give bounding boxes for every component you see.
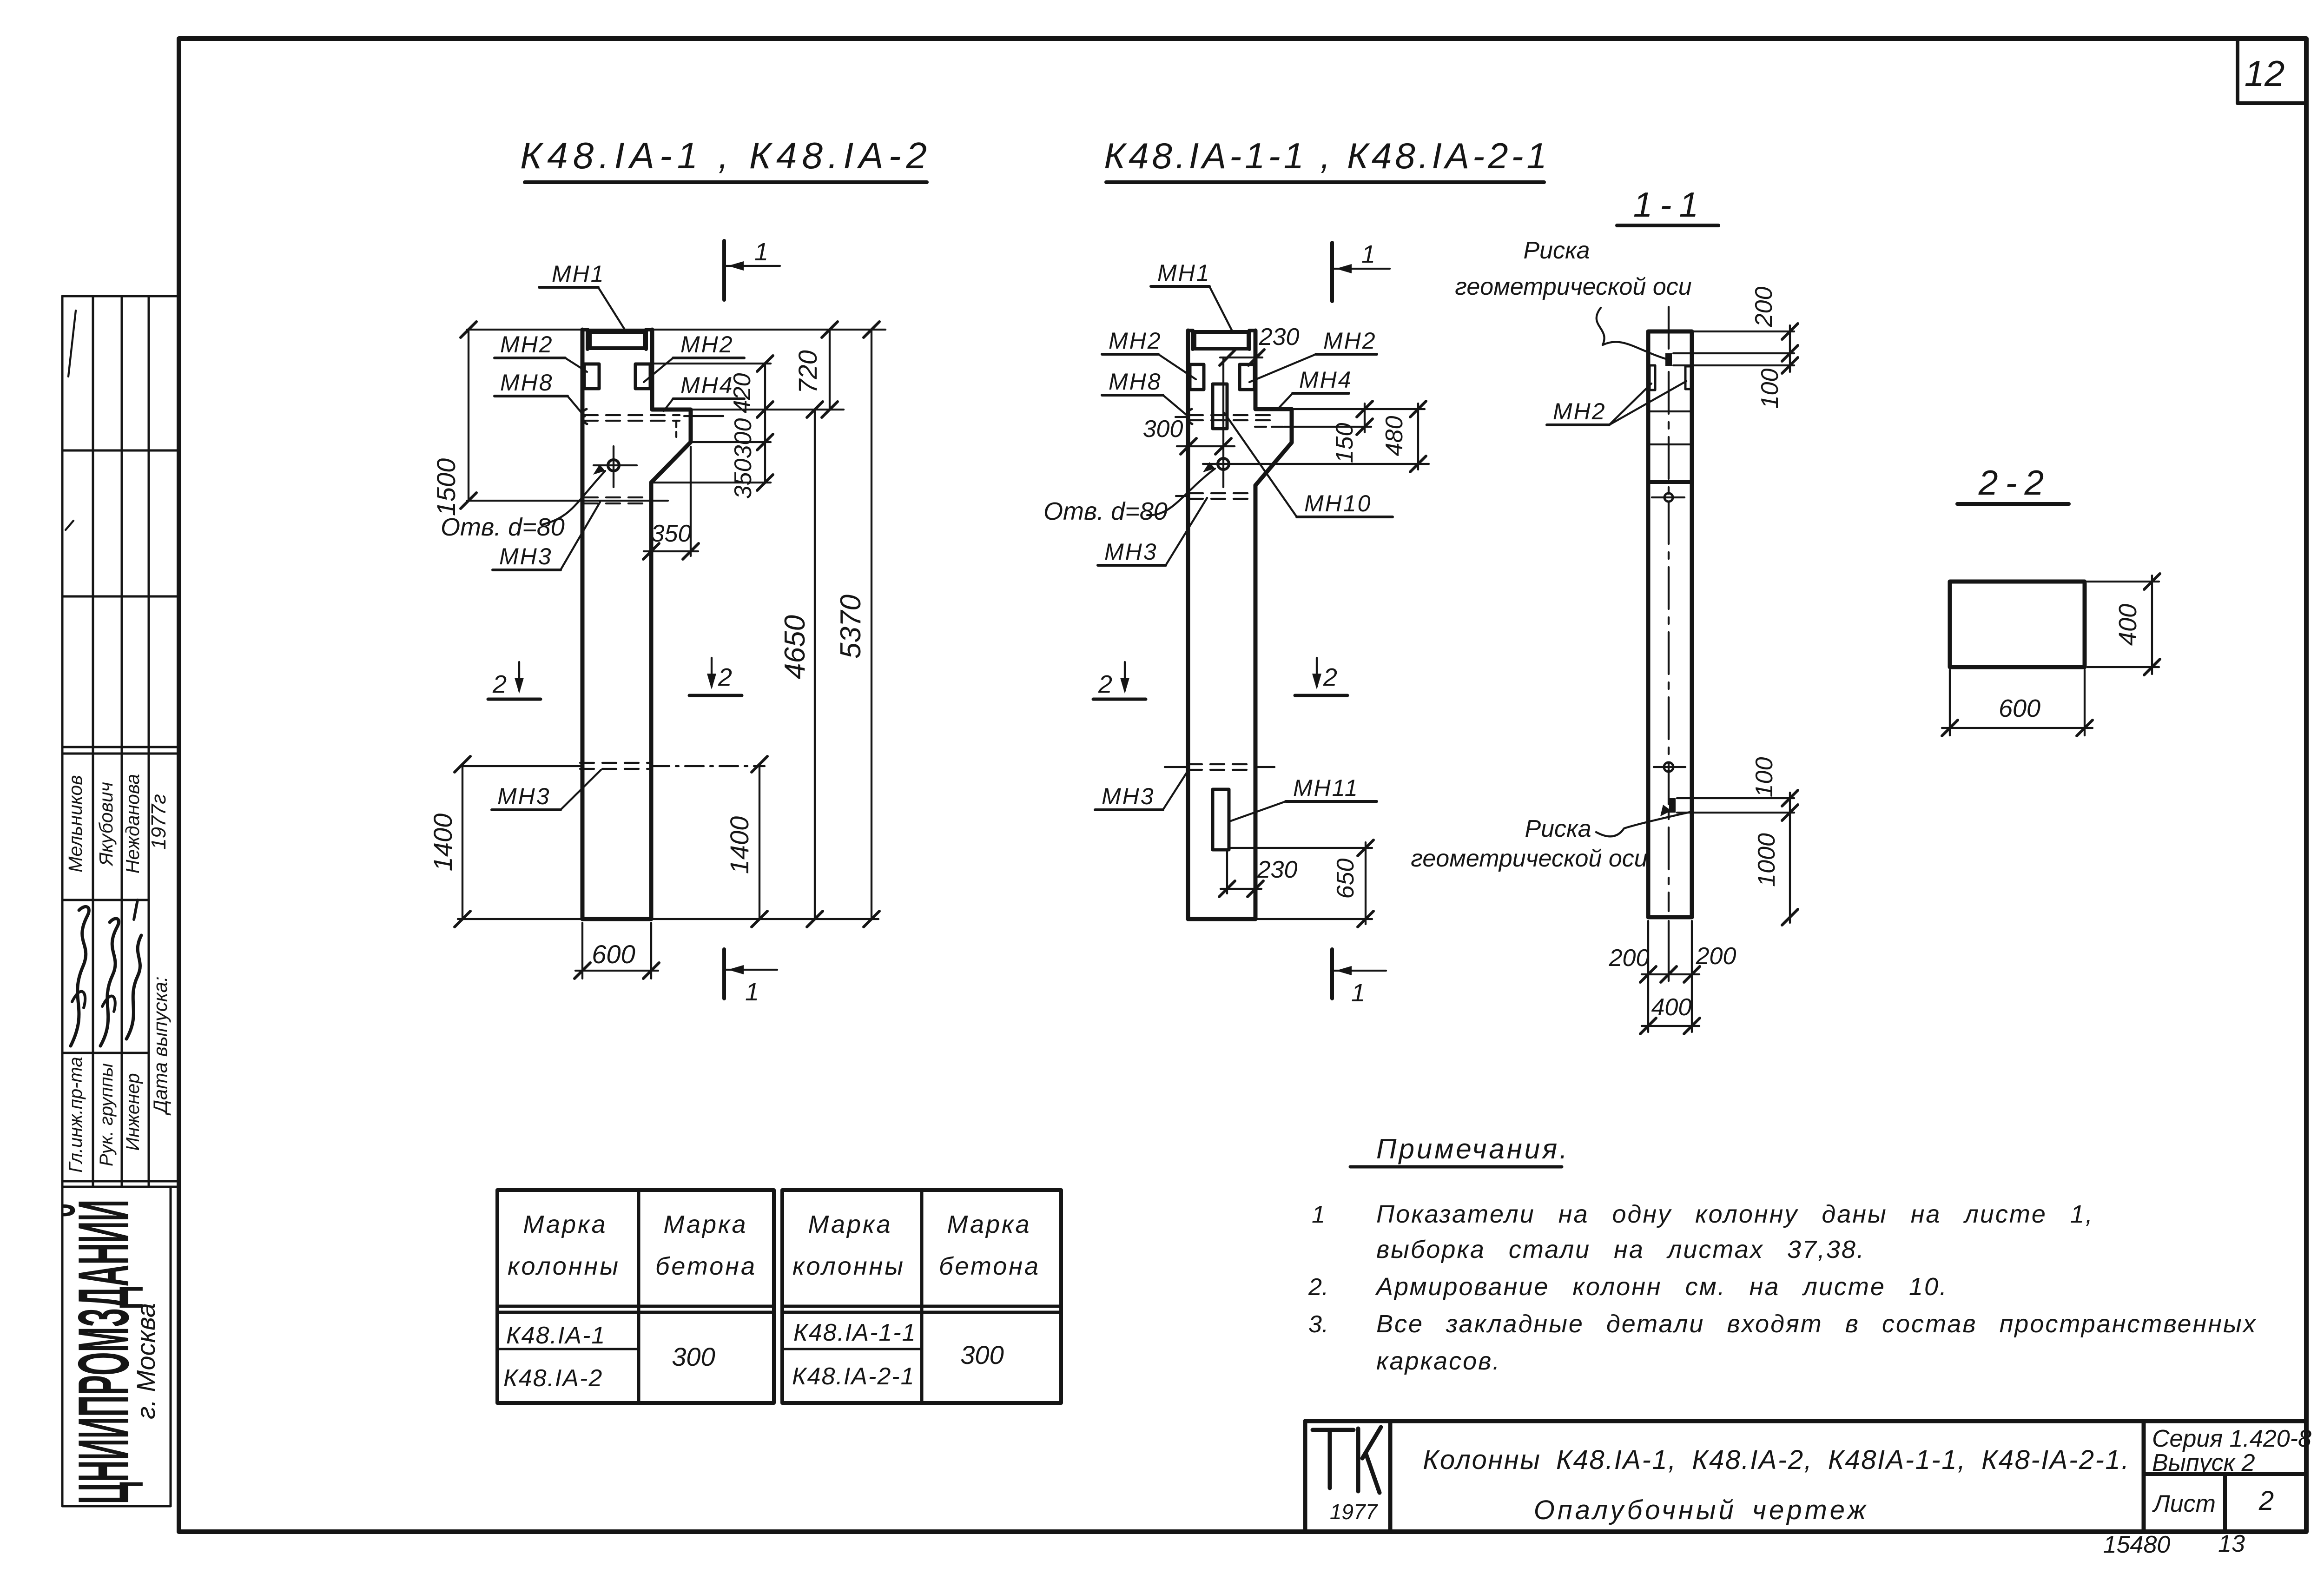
svg-text:колонны: колонны (508, 1252, 620, 1280)
svg-text:МН2: МН2 (1323, 328, 1377, 354)
underline of first title (525, 180, 927, 184)
svg-text:геометрической оси: геометрической оси (1411, 845, 1647, 872)
svg-text:300: 300 (672, 1342, 715, 1371)
column K48.IA-1 outline: left edge (581, 330, 585, 919)
section mark 1 bottom (col 2) (1330, 949, 1334, 999)
svg-text:геометрической оси: геометрической оси (1455, 273, 1691, 300)
svg-text:Лист: Лист (2152, 1490, 2216, 1517)
embedded plate MN2 left edge (1-1) (1650, 365, 1655, 390)
column K48.IA-1-1 outline: bottom edge (1188, 917, 1255, 921)
dims 100/1000 bottom (1-1) (1677, 797, 1794, 799)
svg-text:Марка: Марка (523, 1211, 607, 1238)
svg-text:Рук. группы: Рук. группы (96, 1063, 117, 1166)
svg-text:350: 350 (730, 459, 757, 499)
embedded plate MN2 left (col 1) (584, 364, 599, 389)
svg-text:2.: 2. (1308, 1274, 1328, 1301)
hidden line MN3 upper (col 2, dashed pair) (1189, 492, 1255, 494)
svg-text:Риска: Риска (1523, 237, 1590, 264)
dim 1500 (col 1 left) (468, 330, 469, 501)
dim 1400 (col 1 left lower) (462, 764, 463, 919)
dim 230 top (col 2) (1222, 357, 1224, 442)
hidden line MN8 (col 2, dashed pair) (1189, 414, 1274, 416)
svg-text:600: 600 (592, 939, 635, 969)
title block frame (1305, 1419, 2306, 1423)
column K48.IA-1-1 outline: head right edge (1254, 331, 1258, 409)
embedded plate MN2 right (col 1) (635, 364, 650, 389)
svg-text:К48.IА-1 , К48.IА-2: К48.IА-1 , К48.IА-2 (520, 135, 932, 176)
svg-text:Марка: Марка (663, 1211, 747, 1238)
svg-text:1400: 1400 (725, 816, 754, 874)
svg-text:г. Москва: г. Москва (131, 1303, 160, 1419)
svg-text:выборка стали на листах 3: выборка стали на листах 37,38. (1376, 1236, 1865, 1263)
column K48.IA-1 outline: bottom edge (582, 917, 651, 921)
svg-text:200: 200 (1696, 943, 1736, 970)
underline of 2-2 title (1957, 502, 2069, 506)
signature squiggle 1 (71, 906, 89, 1046)
svg-text:300: 300 (730, 418, 757, 459)
svg-text:300: 300 (1143, 416, 1183, 443)
svg-text:МН4: МН4 (680, 372, 734, 398)
svg-text:1: 1 (745, 978, 759, 1006)
svg-text:1977г: 1977г (147, 794, 170, 850)
svg-text:3.: 3. (1308, 1311, 1328, 1338)
sheet number box top-right (2238, 39, 2306, 103)
TK logo (1313, 1428, 1353, 1432)
dim 600 (col 1 bottom) (581, 923, 583, 979)
dim 480 (col 2) (1417, 404, 1419, 470)
svg-text:МН2: МН2 (1553, 398, 1606, 424)
section 2-2 rectangle 600x400 (1950, 582, 2085, 667)
dim 600 (2-2) (1949, 670, 1951, 735)
column K48.IA-1 outline: shaft right edge (649, 483, 654, 919)
svg-text:1: 1 (754, 238, 768, 266)
svg-text:200: 200 (1750, 287, 1777, 328)
svg-text:Серия 1.420-8: Серия 1.420-8 (2152, 1425, 2311, 1452)
svg-text:К48.IА-1: К48.IА-1 (506, 1322, 606, 1349)
svg-text:150: 150 (1331, 423, 1358, 463)
dim 150 (col 2) (1294, 408, 1425, 410)
hidden line MN3 upper (col 1, dashed pair) (584, 496, 650, 498)
hole in 1-1 view (1664, 493, 1673, 502)
svg-text:МН1: МН1 (1157, 260, 1211, 286)
svg-text:МН8: МН8 (1109, 369, 1162, 395)
svg-text:Примечания.: Примечания. (1376, 1133, 1570, 1164)
geometric axis scribe mark top (riska) (1665, 353, 1672, 366)
svg-text:400: 400 (1651, 994, 1692, 1021)
extension line at 1500 dim bottom (col 1) (467, 500, 668, 502)
level lines in 1-1 view (1648, 410, 1692, 412)
svg-text:Опалубочный чертеж: Опалубочный чертеж (1534, 1495, 1869, 1525)
svg-text:Выпуск 2: Выпуск 2 (2152, 1449, 2255, 1476)
lower hole in 1-1 view (1664, 762, 1673, 772)
hidden line MN8 (col 1, dashed pair) (584, 414, 680, 416)
embedded plate MN1 (col 1) (590, 332, 645, 348)
svg-text:бетона: бетона (939, 1252, 1040, 1280)
svg-text:Показатели на одну колонну дан: Показатели на одну колонну даны на листе… (1376, 1200, 2094, 1228)
svg-text:4650: 4650 (779, 615, 811, 679)
hole Otv d=80 (col 1) (608, 460, 619, 471)
svg-text:200: 200 (1609, 945, 1650, 972)
svg-text:Армирование колонн см. на л: Армирование колонн см. на листе 10. (1375, 1273, 1948, 1301)
svg-text:К48.IА-2-1: К48.IА-2-1 (792, 1363, 915, 1390)
MN8 end hook on left edge (col 2) (1187, 409, 1192, 424)
signature squiggle 3 (126, 935, 141, 1039)
svg-text:К48.IА-2: К48.IА-2 (503, 1365, 603, 1392)
svg-text:колонны: колонны (792, 1252, 905, 1280)
svg-text:МН1: МН1 (552, 261, 605, 287)
dim stack 420/300/350 (col 1) (764, 364, 766, 483)
stray mark in top row of stamp (68, 311, 76, 377)
svg-text:13: 13 (2218, 1530, 2245, 1557)
signature squiggle 2 (100, 919, 119, 1046)
embedded plate MN11 (col 2) (1213, 789, 1229, 850)
svg-text:МН3: МН3 (497, 783, 551, 809)
dim 5370 (col 1) (871, 330, 872, 919)
embedded plate MN2 right edge (1-1) (1685, 366, 1691, 389)
dim 300 (col 2) (1177, 445, 1235, 447)
svg-text:МН11: МН11 (1293, 775, 1359, 801)
svg-text:1977: 1977 (1330, 1500, 1378, 1524)
svg-text:каркасов.: каркасов. (1376, 1347, 1501, 1375)
mark table 2 frame (782, 1190, 1061, 1403)
left margin stamp: signature table grid (61, 296, 64, 1187)
underline of second title (1106, 180, 1544, 184)
svg-text:2: 2 (1098, 670, 1112, 698)
svg-text:230: 230 (1257, 856, 1298, 883)
svg-text:МН10: МН10 (1304, 490, 1372, 516)
svg-text:1: 1 (1361, 240, 1375, 268)
svg-text:12: 12 (2245, 53, 2285, 94)
left margin stamp: institute name block (61, 1187, 64, 1506)
leader to hole (col 1) (543, 471, 605, 524)
svg-text:720: 720 (793, 350, 822, 393)
dims 200/200/400 below 1-1 (1647, 921, 1649, 1032)
embedded plate MN1 (col 2) (1195, 332, 1248, 349)
section mark 2 right (col 2) (1316, 658, 1318, 687)
console plate MN4 bottom line (col 2) (1255, 426, 1284, 428)
svg-text:1: 1 (1351, 979, 1365, 1007)
svg-text:Отв. d=80: Отв. d=80 (441, 513, 565, 541)
svg-text:К48.IА-1-1: К48.IА-1-1 (793, 1319, 917, 1346)
dims 200/100 top (1-1) (1694, 331, 1794, 332)
svg-text:Марка: Марка (808, 1211, 892, 1238)
svg-text:1000: 1000 (1753, 833, 1780, 887)
svg-text:2: 2 (1323, 663, 1337, 691)
svg-text:15480: 15480 (2103, 1531, 2171, 1558)
svg-text:300: 300 (960, 1340, 1004, 1369)
section 1-1 column outline (1648, 331, 1692, 917)
column K48.IA-1 outline: console step (651, 410, 691, 483)
svg-text:МН3: МН3 (499, 543, 553, 569)
embedded plate MN10 (col 2) (1213, 384, 1227, 429)
svg-text:400: 400 (2114, 604, 2142, 646)
column K48.IA-1-1 outline: left edge (1186, 331, 1190, 919)
svg-text:480: 480 (1381, 416, 1408, 456)
svg-text:Все закладные детали входят в: Все закладные детали входят в состав про… (1376, 1310, 2257, 1338)
section mark 1 top (col 2) (1330, 243, 1334, 301)
geometric axis scribe mark bottom (riska) (1669, 798, 1676, 813)
embedded plate MN2 right (col 2) (1240, 364, 1254, 390)
svg-text:Инженер: Инженер (123, 1073, 143, 1151)
hidden line MN3 lower (col 1, dashed pair) (580, 762, 649, 764)
hole Otv d=80 (col 2) (1218, 458, 1229, 470)
column K48.IA-1-1 outline: top edge (1188, 331, 1255, 349)
leader to top riska (1597, 308, 1666, 359)
svg-text:Дата выпуска:: Дата выпуска: (149, 976, 171, 1115)
leader to bottom riska (1596, 812, 1692, 836)
embedded plate MN2 left (col 2) (1190, 364, 1204, 390)
svg-text:МН2: МН2 (1109, 328, 1162, 354)
hole crosshair + 480 extension (col 2) (1203, 463, 1429, 465)
extension line at lower MN3 level (col 1) (461, 765, 581, 767)
section mark 2 left (col 2) (1124, 662, 1126, 691)
svg-text:Гл.инж.пр-та: Гл.инж.пр-та (66, 1057, 86, 1172)
svg-text:МН3: МН3 (1102, 783, 1155, 809)
center line of 1-1 view (1668, 307, 1670, 911)
svg-text:1500: 1500 (431, 458, 461, 516)
svg-text:230: 230 (1259, 324, 1300, 351)
dim 350 horizontal under console (col 1) (650, 499, 652, 556)
svg-text:2: 2 (2258, 1486, 2274, 1516)
mark table 1 frame (497, 1190, 774, 1403)
svg-text:1400: 1400 (428, 814, 457, 872)
dim 720 (col 1) (829, 330, 831, 410)
svg-text:100: 100 (1756, 369, 1783, 409)
svg-text:350: 350 (651, 520, 692, 547)
svg-text:100: 100 (1751, 757, 1778, 798)
svg-text:Нежданова: Нежданова (122, 774, 143, 873)
section mark 2 left (col 1) (518, 662, 520, 691)
svg-text:1: 1 (1312, 1201, 1325, 1228)
dim 650 (col 2) (1231, 847, 1372, 849)
column K48.IA-1-1 outline: console step (1255, 409, 1292, 485)
svg-text:5370: 5370 (835, 595, 867, 659)
column K48.IA-1-1 outline: shaft right edge (1254, 485, 1258, 919)
hidden line MN3 lower (col 2, dashed pair) (1188, 763, 1254, 765)
svg-text:Мельников: Мельников (65, 775, 86, 872)
svg-text:2-2: 2-2 (1978, 463, 2051, 502)
dim 400 (2-2) (2087, 581, 2159, 582)
dim 1400 (col 1 right of shaft) (759, 764, 760, 919)
svg-text:МН4: МН4 (1299, 367, 1353, 393)
svg-text:МН2: МН2 (500, 331, 554, 357)
svg-text:1-1: 1-1 (1633, 185, 1706, 224)
svg-text:Марка: Марка (947, 1211, 1031, 1238)
svg-text:К48.IА-1-1 , К48.IА-2-1: К48.IА-1-1 , К48.IА-2-1 (1104, 135, 1550, 176)
dim 4650 (col 1) (814, 410, 816, 919)
svg-text:МН2: МН2 (680, 331, 734, 357)
column K48.IA-1 outline: top edge with MN1 recess (582, 330, 652, 349)
svg-text:650: 650 (1332, 859, 1359, 899)
top extension line over column 1 (467, 329, 885, 331)
underline of 1-1 title (1617, 224, 1718, 227)
svg-text:600: 600 (1999, 695, 2040, 722)
svg-text:Колонны К48.IА-1, К48.IА-2, К: Колонны К48.IА-1, К48.IА-2, К48IА-1-1, К… (1423, 1445, 2130, 1475)
svg-text:2: 2 (492, 670, 507, 698)
svg-text:бетона: бетона (655, 1252, 757, 1280)
section mark 1 bottom (col 1) (722, 949, 726, 999)
hole crosshair (col 1) (594, 464, 637, 466)
svg-text:Отв. d=80: Отв. d=80 (1043, 497, 1168, 525)
dim 230 bottom (col 2) (1226, 852, 1228, 893)
svg-text:Якубович: Якубович (95, 782, 117, 867)
svg-text:2: 2 (718, 663, 732, 691)
leader to hole (col 2) (1147, 469, 1215, 515)
column K48.IA-1 outline: head right edge (650, 330, 654, 410)
section mark 2 right (col 1) (711, 658, 713, 687)
section mark 1 top (col 1) (722, 241, 726, 300)
svg-text:МН3: МН3 (1104, 539, 1158, 565)
MN8 end hook on left edge (col 1) (582, 409, 587, 424)
svg-text:МН8: МН8 (500, 370, 554, 396)
svg-text:Риска: Риска (1525, 815, 1591, 842)
